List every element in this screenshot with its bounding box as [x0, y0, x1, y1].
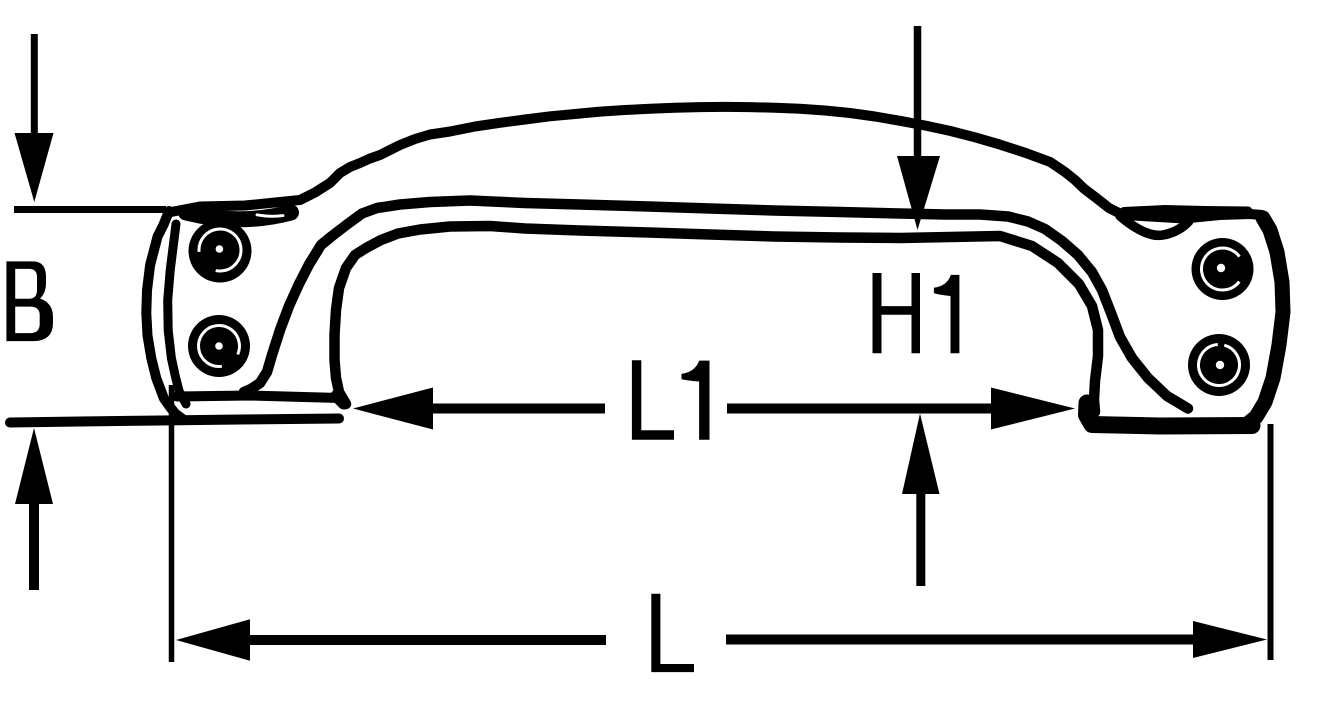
dimension L line with arrows — [176, 619, 1267, 660]
screw hole bottom-right — [1188, 334, 1250, 396]
handle outer contour (left plate top edge, arch, right plate top edge) — [171, 107, 1262, 219]
screw hole bottom-left — [188, 315, 250, 377]
junction blob left plate bottom corner — [337, 396, 344, 403]
dimension L right extension line — [1268, 424, 1274, 660]
dimension H1 top arrow (down) — [897, 26, 940, 230]
handle left plate left edge outer — [146, 211, 182, 419]
handle right plate right edge — [1246, 218, 1283, 425]
white sliver in left plate top band — [257, 215, 283, 216]
dimension H1 bottom arrow (up) — [902, 414, 940, 587]
label B — [6, 261, 53, 341]
label L — [651, 594, 694, 672]
handle left plate left edge inner — [168, 224, 186, 404]
dimension L1 line with arrows — [353, 388, 1075, 430]
handle left plate bottom upper line — [177, 396, 340, 399]
handle inner contour upper (grip front edge, ends in plates) — [244, 201, 1188, 409]
screw hole top-right — [1192, 238, 1254, 300]
dimension B top extension line — [14, 206, 166, 213]
dimension B bottom arrow (up) — [15, 428, 53, 590]
handle inner contour lower (inner opening edge) — [335, 226, 1099, 412]
handle left plate bottom lower line merged with B extension line — [10, 419, 339, 423]
label H1 — [873, 273, 921, 353]
dimension L left extension line — [169, 385, 175, 662]
screw hole top-left — [189, 220, 252, 283]
dimension B top arrow (down) — [15, 34, 54, 202]
right plate top band second stroke — [1124, 210, 1248, 212]
label L1 — [632, 360, 674, 439]
handle right plate top scallop — [1120, 216, 1189, 235]
handle left plate top crescent — [186, 213, 291, 220]
handle right plate bottom band — [1087, 403, 1253, 426]
